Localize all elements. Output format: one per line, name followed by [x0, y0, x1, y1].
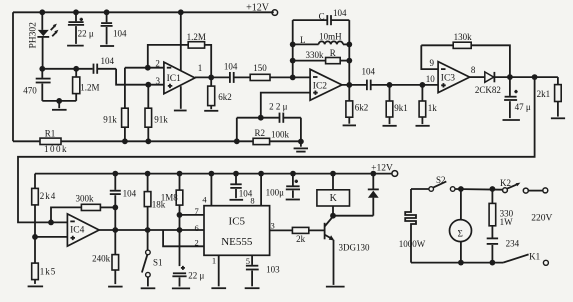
diode flyback [368, 174, 379, 216]
node sensor output [39, 66, 45, 72]
svg-text:10mH: 10mH [319, 32, 342, 42]
wire interconnect to IC4 [18, 77, 535, 225]
node 47u tap [507, 74, 513, 80]
svg-text:104: 104 [224, 61, 238, 71]
wire IC4 noninverting input [35, 236, 67, 238]
svg-text:IC2: IC2 [313, 81, 328, 91]
svg-text:240k: 240k [92, 253, 111, 263]
svg-text:Σ: Σ [458, 228, 463, 238]
svg-text:10: 10 [426, 74, 436, 84]
svg-text:103: 103 [266, 264, 280, 274]
capacitor 470 [23, 69, 50, 101]
ground 47u [503, 119, 520, 121]
ground IC1 [174, 86, 187, 110]
ground 104 IC5 [230, 199, 244, 201]
capacitor 234 [487, 238, 520, 262]
svg-text:K2: K2 [500, 178, 511, 188]
svg-text:47 μ: 47 μ [515, 102, 531, 112]
wire IC3 output [470, 76, 485, 78]
svg-text:220V: 220V [531, 214, 552, 224]
resistor 300k feedback IC4 [51, 194, 115, 223]
svg-text:100k: 100k [44, 144, 68, 154]
ground emitter [326, 286, 345, 288]
ground 9k1 [383, 125, 397, 127]
svg-text:6k2: 6k2 [218, 92, 232, 102]
ground 103 [245, 287, 260, 289]
capacitor 103 pin5 [246, 255, 280, 286]
svg-text:K1: K1 [529, 251, 540, 261]
resistor R 330k feedback [290, 48, 352, 64]
svg-text:470: 470 [23, 86, 37, 96]
node 330 tap [490, 186, 496, 192]
resistor 18k [144, 174, 165, 230]
svg-text:IC4: IC4 [70, 225, 85, 235]
svg-text:1: 1 [212, 256, 216, 266]
capacitor 47u [504, 77, 531, 118]
resistor 240k [92, 230, 119, 284]
switch K2 [500, 178, 548, 193]
wire +12V bottom rail [35, 173, 392, 175]
svg-text:6: 6 [194, 223, 198, 233]
resistor 2k1 [537, 77, 562, 117]
wire pin4 [202, 174, 211, 206]
capacitor 22u decoupling [67, 12, 94, 45]
wire +12V top rail [13, 11, 274, 13]
capacitor 104 coupling IC1-IC2 [224, 61, 250, 83]
svg-text:1M8: 1M8 [161, 192, 179, 202]
resistor 6k2 IC2 [346, 85, 368, 124]
ground sensor [52, 101, 67, 110]
svg-text:100k: 100k [271, 130, 290, 140]
ground 22u timing [172, 287, 190, 289]
svg-text:+12V: +12V [246, 3, 270, 14]
photodiode PH302 [29, 12, 59, 69]
svg-text:104: 104 [113, 28, 127, 38]
switch S2 [411, 175, 503, 192]
svg-text:22 μ: 22 μ [188, 270, 204, 280]
wire IC1 output [195, 75, 229, 81]
wire IC1 pin2 [125, 65, 164, 71]
capacitor 104 coupling IC1 input [94, 56, 117, 74]
svg-text:IC3: IC3 [441, 74, 456, 84]
svg-text:1k: 1k [428, 103, 438, 113]
wire IC1 power stub [180, 12, 182, 70]
wire left border [12, 12, 14, 141]
motor sigma [450, 189, 472, 263]
svg-text:2: 2 [155, 58, 160, 68]
wire IC2 output [342, 82, 367, 88]
capacitor 22u timing [172, 266, 204, 287]
ground 2k1 [551, 117, 565, 119]
resistor 1M8 [161, 174, 183, 267]
svg-text:R: R [330, 48, 336, 58]
resistor 91k right [145, 85, 168, 145]
svg-text:104: 104 [362, 66, 376, 76]
node +12V terminal bottom [371, 163, 398, 176]
svg-text:C: C [319, 12, 325, 22]
svg-text:2k4: 2k4 [40, 191, 57, 201]
resistor 91k left [103, 68, 128, 145]
svg-text:PH302: PH302 [29, 22, 39, 49]
IC U5 NE555 [204, 206, 270, 256]
resistor R2 100k [253, 128, 289, 145]
node bottom rail junctions [112, 171, 376, 177]
ground 6k2 IC1 [204, 110, 218, 112]
svg-text:104: 104 [123, 189, 137, 199]
resistor 130k feedback [421, 32, 510, 77]
wire bottom 220V [411, 260, 503, 266]
diode 2CK82 [475, 72, 558, 95]
wire IC5 pin7 [180, 214, 205, 216]
pin labels left [194, 206, 198, 248]
wire pin3 [270, 220, 293, 230]
wire 470/1.2M bottom [42, 98, 76, 104]
svg-text:91k: 91k [103, 114, 117, 124]
svg-text:3: 3 [156, 76, 161, 86]
ground R2 [294, 142, 308, 152]
svg-text:S2: S2 [436, 175, 446, 185]
relay K coil [317, 174, 373, 219]
svg-text:3: 3 [270, 220, 274, 230]
resistor 2k base [292, 227, 324, 244]
svg-text:2k: 2k [296, 234, 306, 244]
resistor 150 [250, 63, 310, 81]
svg-text:91k: 91k [154, 114, 168, 124]
svg-text:9k1: 9k1 [394, 103, 408, 113]
svg-text:9: 9 [429, 58, 434, 68]
label 220V [531, 214, 552, 224]
svg-text:K: K [330, 193, 338, 204]
ground 1k [416, 125, 430, 127]
svg-text:2CK82: 2CK82 [475, 85, 501, 95]
heater 1000W [399, 189, 426, 263]
svg-text:IC1: IC1 [167, 74, 182, 84]
resistor R1 100k [40, 128, 68, 154]
op-amp IC1 [155, 58, 202, 93]
svg-text:IC5: IC5 [229, 215, 246, 227]
wire pin8 [250, 174, 261, 206]
wire bias net verticals [234, 118, 304, 145]
op-amp IC4 [67, 214, 99, 246]
wire IC2 noninverting input [258, 93, 310, 121]
svg-text:7: 7 [194, 206, 198, 216]
resistor 1.2M feedback [148, 32, 211, 77]
wire feedback network left [292, 20, 294, 77]
wire IC4 output [99, 227, 204, 233]
svg-text:1: 1 [198, 63, 203, 73]
capacitor 22u IC2 bias [237, 101, 301, 123]
svg-text:L: L [300, 35, 306, 45]
svg-text:2 2 μ: 2 2 μ [269, 101, 288, 111]
capacitor 104 decoupling IC5 [230, 174, 253, 199]
node +12V terminal top [246, 3, 278, 16]
svg-text:1000W: 1000W [399, 239, 426, 249]
capacitor 100u decoupling [266, 174, 300, 198]
svg-text:1.2M: 1.2M [187, 32, 206, 42]
svg-text:8: 8 [471, 65, 476, 75]
node rail junctions [39, 9, 183, 15]
resistor 1k5 [32, 237, 57, 284]
op-amp IC3 [426, 58, 476, 93]
inductor L 10mH [290, 32, 352, 48]
svg-text:100μ: 100μ [266, 187, 285, 197]
svg-text:150: 150 [253, 63, 267, 73]
resistor 1k [419, 82, 437, 124]
svg-text:5: 5 [246, 256, 250, 266]
capacitor C 104 feedback [293, 8, 350, 25]
svg-text:300k: 300k [76, 194, 95, 204]
svg-text:104: 104 [101, 56, 115, 66]
svg-text:S1: S1 [153, 257, 163, 267]
svg-text:8: 8 [250, 196, 254, 206]
node interconnect tap [532, 74, 538, 80]
svg-text:1.2M: 1.2M [80, 82, 99, 92]
svg-text:2k1: 2k1 [537, 89, 551, 99]
svg-text:330k: 330k [306, 50, 325, 60]
wire bias bus [13, 140, 301, 142]
transistor Q1 3DG130 [325, 216, 370, 285]
svg-text:104: 104 [333, 8, 347, 18]
resistor 9k1 [386, 82, 408, 124]
wire feedback network right [348, 20, 350, 85]
svg-text:1W: 1W [500, 217, 513, 227]
ground 1k5 [28, 285, 43, 287]
resistor 330 1W [489, 189, 513, 238]
svg-text:R1: R1 [45, 128, 56, 138]
ground S1 [141, 287, 156, 289]
svg-text:234: 234 [506, 239, 520, 249]
wire pin2 [163, 230, 204, 246]
capacitor 104 decoupling [100, 12, 127, 46]
capacitor 104 IC4 [110, 174, 137, 230]
ground 6k2 IC2 [343, 124, 356, 126]
svg-text:22 μ: 22 μ [78, 28, 94, 38]
svg-text:130k: 130k [454, 32, 473, 42]
resistor 2k4 [32, 174, 57, 240]
svg-text:1k5: 1k5 [40, 266, 57, 276]
switch K1 [503, 251, 548, 265]
svg-text:R2: R2 [255, 128, 266, 138]
ground 100u [286, 199, 300, 201]
svg-text:3DG130: 3DG130 [339, 243, 370, 253]
wire pin1 ground [211, 255, 226, 288]
wire sensor node [42, 68, 92, 70]
svg-text:NE555: NE555 [221, 236, 253, 248]
node IC2 inverting input [290, 75, 296, 81]
node motor tap [458, 186, 464, 192]
resistor 6k2 IC1 [208, 77, 232, 109]
op-amp IC2 [310, 69, 342, 100]
wire jog to IC1 pin3 [116, 69, 164, 88]
ground 240k [108, 286, 123, 288]
resistor 1.2M vertical [73, 66, 100, 101]
svg-text:6k2: 6k2 [355, 103, 369, 113]
wire IC3 pin9 [421, 45, 438, 69]
switch S1 [142, 230, 163, 286]
capacitor 104 coupling IC2-IC3 [362, 66, 439, 90]
